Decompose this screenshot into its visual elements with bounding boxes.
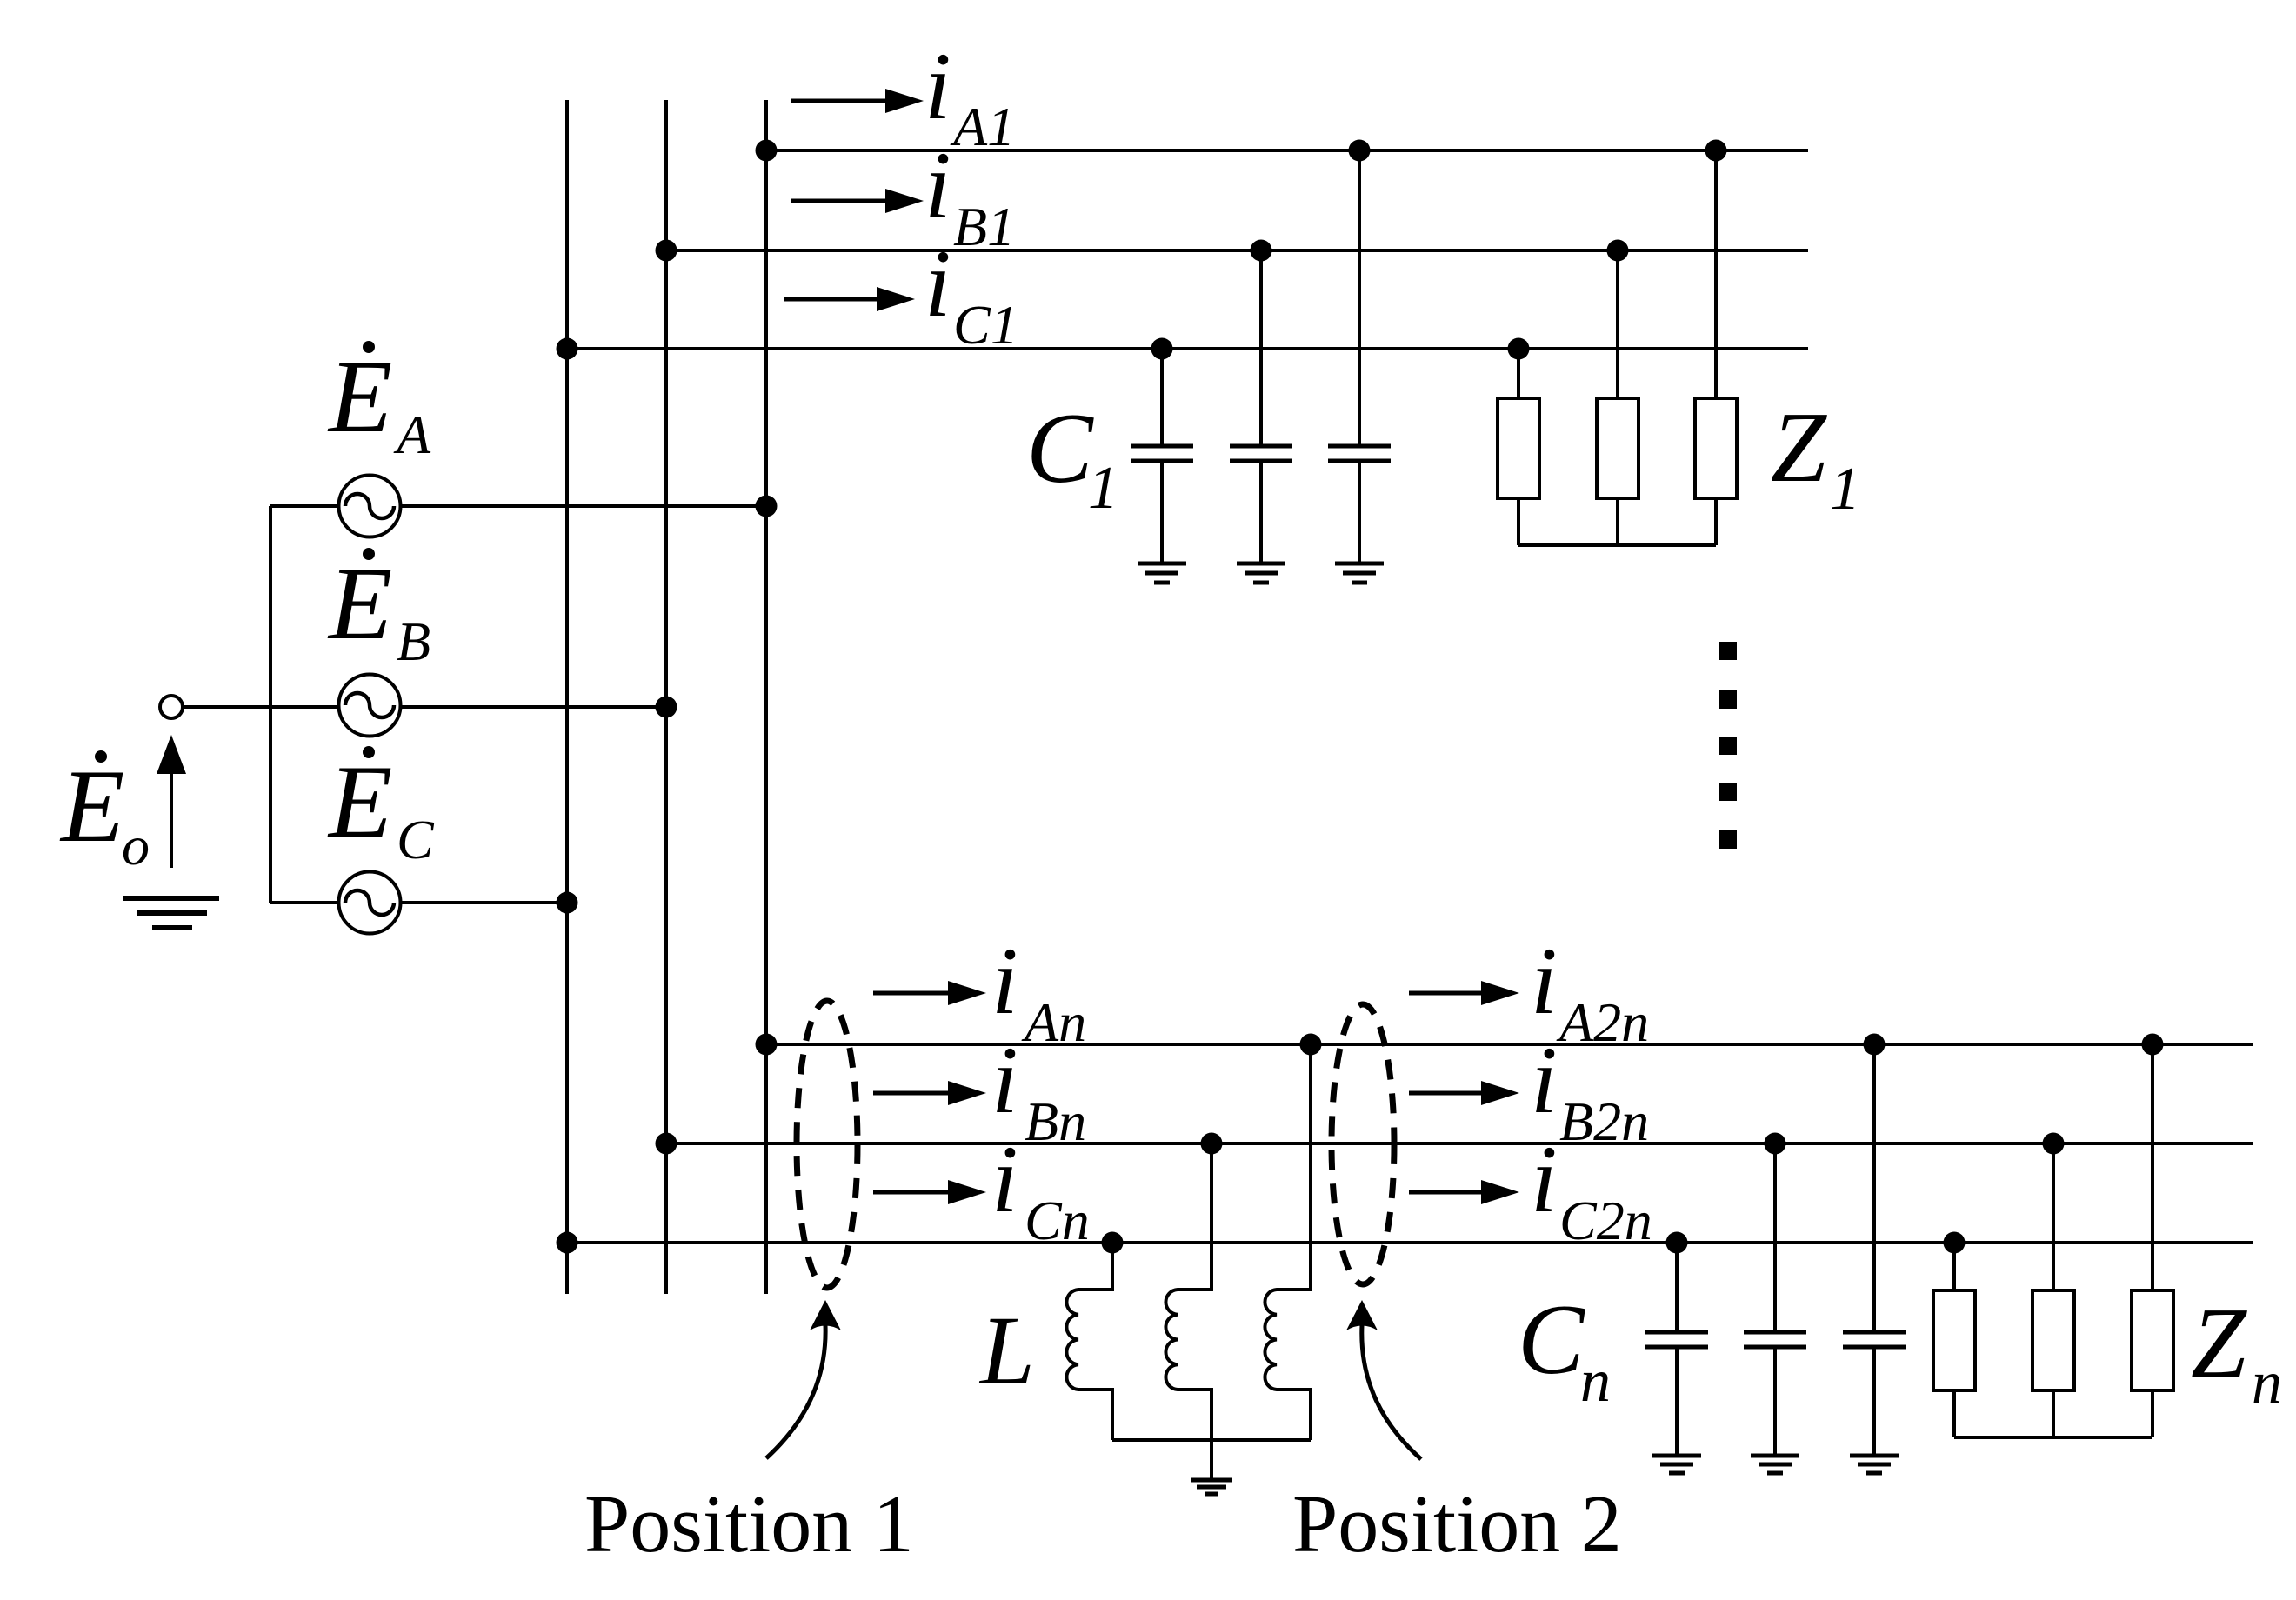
svg-text:i: i (924, 132, 951, 238)
label Z1 (1771, 392, 1860, 523)
ground capacitor C1 phase B (1237, 563, 1285, 583)
node bus3-An (756, 1034, 778, 1056)
Position 2 measurement ellipse (1332, 1004, 1394, 1284)
svg-text:C: C (397, 809, 435, 870)
inductor L phase C (1066, 1243, 1112, 1440)
svg-text:A2n: A2n (1556, 991, 1649, 1053)
svg-text:C2n: C2n (1559, 1190, 1652, 1251)
svg-text:n: n (2252, 1350, 2282, 1417)
arrow iCn (873, 1180, 986, 1204)
node Z1c-A1 (1705, 140, 1727, 162)
label EB (327, 545, 430, 672)
inductor L phase B (1165, 1143, 1211, 1479)
wire source EC horizontal (270, 901, 567, 904)
svg-text:An: An (1021, 991, 1086, 1053)
Position 1 measurement ellipse (797, 1001, 858, 1288)
label iB1 (924, 132, 1015, 257)
svg-text:A1: A1 (950, 96, 1015, 157)
ellipsis dots between feeders (1719, 642, 1737, 849)
label L (978, 1297, 1035, 1405)
wire feeder1 line C1 (567, 347, 1808, 350)
ground L (1191, 1480, 1232, 1494)
svg-text:B2n: B2n (1559, 1090, 1649, 1152)
svg-text:L: L (978, 1297, 1035, 1405)
label EA (327, 338, 431, 465)
arrow Position 1 pointer (766, 1300, 841, 1458)
label iA1 (924, 33, 1015, 157)
svg-text:C: C (1026, 393, 1094, 503)
svg-text:E: E (327, 743, 392, 859)
inductor L phase A (1265, 1044, 1311, 1440)
node junction dots (557, 140, 2164, 1254)
svg-text:C: C (1518, 1284, 1585, 1395)
node La-Cn (1102, 1232, 1124, 1254)
capacitor Cn phase C (1645, 1243, 1708, 1455)
node Znb-B2n (2043, 1133, 2065, 1155)
svg-text:i: i (1531, 1027, 1558, 1133)
arrow iA1 (791, 89, 924, 113)
label Eo (59, 748, 150, 877)
wire bus phase B vertical (664, 100, 668, 1294)
svg-text:n: n (1580, 1348, 1611, 1415)
arrow iB2n (1409, 1081, 1519, 1105)
svg-text:Position 2: Position 2 (1292, 1479, 1622, 1570)
svg-text:E: E (327, 545, 392, 661)
svg-text:i: i (991, 1027, 1018, 1133)
wire Z1 star bus (1518, 543, 1716, 547)
ground capacitor Cn phase A (1850, 1456, 1899, 1473)
AC source EA (339, 476, 401, 537)
capacitor Cn phase B (1744, 1143, 1806, 1455)
resistor Zn phase B (2032, 1143, 2074, 1437)
AC source EC (339, 872, 401, 934)
arrow iAn (873, 981, 986, 1005)
wire feeder n line An (766, 1043, 2253, 1046)
wire source EA horizontal (270, 504, 766, 508)
resistor Z1 phase B (1597, 250, 1639, 545)
node Cna-C2n (1666, 1232, 1688, 1254)
resistor Z1 phase A (1695, 150, 1737, 545)
ground capacitor C1 phase C (1138, 563, 1186, 583)
svg-text:A: A (393, 403, 431, 465)
terminal neutral open circle (160, 696, 183, 718)
wire feeder1 line A1 (766, 149, 1808, 152)
node C1b-B1 (1251, 240, 1272, 262)
capacitor C1 phase C (1131, 349, 1193, 562)
label iB2n (1531, 1027, 1649, 1152)
label iCn (991, 1126, 1090, 1251)
svg-text:i: i (991, 1126, 1018, 1232)
ground capacitor C1 phase A (1335, 563, 1384, 583)
node EB-bus2 (656, 697, 677, 718)
ground capacitor Cn phase C (1652, 1456, 1701, 1473)
capacitor C1 phase A (1328, 150, 1391, 562)
arrow iA2n (1409, 981, 1519, 1005)
ground neutral (123, 898, 219, 928)
resistor Zn phase C (1933, 1243, 1975, 1437)
wire left rail (269, 506, 272, 903)
label EC (327, 743, 435, 870)
node Znc-A2n (2142, 1034, 2164, 1056)
wire feeder n line Cn (567, 1241, 2253, 1244)
resistor Zn phase A (2132, 1044, 2173, 1437)
svg-text:Cn: Cn (1025, 1190, 1090, 1251)
svg-text:o: o (122, 815, 150, 877)
node bus1-C1 (557, 338, 578, 360)
svg-text:1: 1 (1088, 455, 1118, 522)
node EC-bus1 (557, 892, 578, 914)
svg-text:Bn: Bn (1025, 1090, 1086, 1152)
ground capacitor Cn phase B (1751, 1456, 1799, 1473)
svg-text:i: i (924, 33, 951, 139)
resistor Z1 phase C (1498, 349, 1539, 545)
node Lc-An (1300, 1034, 1322, 1056)
arrow iC2n (1409, 1180, 1519, 1204)
node EA-bus3 (756, 496, 778, 517)
node bus2-Bn (656, 1133, 677, 1155)
label Cn (1518, 1284, 1611, 1415)
svg-text:E: E (327, 338, 392, 454)
label iAn (991, 928, 1086, 1053)
node C1a-C1 (1151, 338, 1173, 360)
node Lb-Bn (1201, 1133, 1223, 1155)
wire bus phase A vertical (764, 100, 768, 1294)
node Cnb-B2n (1765, 1133, 1786, 1155)
svg-text:Z: Z (1771, 392, 1827, 503)
node bus2-B1 (656, 240, 677, 262)
label iC2n (1531, 1126, 1652, 1251)
wire source EB horizontal (182, 705, 666, 709)
node Zna-C2n (1944, 1232, 1966, 1254)
label iC1 (924, 230, 1018, 356)
svg-text:i: i (1531, 928, 1558, 1034)
arrow iBn (873, 1081, 986, 1105)
arrow Eo phasor (157, 735, 186, 868)
svg-text:C1: C1 (953, 294, 1018, 356)
svg-text:B1: B1 (953, 196, 1015, 257)
node bus3-A1 (756, 140, 778, 162)
wire Zn star bus (1954, 1436, 2152, 1439)
node Z1b-B1 (1607, 240, 1629, 262)
label C1 (1026, 393, 1118, 522)
AC source EB (339, 675, 401, 737)
label iA2n (1531, 928, 1649, 1053)
wire feeder n line Bn (666, 1142, 2253, 1145)
wire feeder1 line B1 (666, 249, 1808, 252)
svg-text:Z: Z (2191, 1288, 2247, 1398)
node Cnc-A2n (1864, 1034, 1886, 1056)
arrow iC1 (784, 287, 915, 311)
node Z1a-C1 (1508, 338, 1530, 360)
svg-text:i: i (924, 230, 951, 337)
node bus1-Cn (557, 1232, 578, 1254)
label iBn (991, 1027, 1086, 1152)
svg-text:E: E (59, 748, 124, 863)
arrow iB1 (791, 189, 924, 213)
svg-text:Position 1: Position 1 (584, 1479, 914, 1570)
capacitor C1 phase B (1230, 250, 1292, 562)
node C1c-A1 (1349, 140, 1371, 162)
arrow Position 2 pointer (1346, 1300, 1421, 1459)
svg-text:i: i (991, 928, 1018, 1034)
svg-text:1: 1 (1830, 456, 1860, 523)
capacitor Cn phase A (1843, 1044, 1906, 1455)
label Zn (2191, 1288, 2282, 1417)
wire bus phase C vertical (565, 100, 569, 1294)
svg-text:B: B (397, 610, 430, 672)
svg-text:i: i (1531, 1126, 1558, 1232)
wire L star bus (1112, 1438, 1311, 1442)
